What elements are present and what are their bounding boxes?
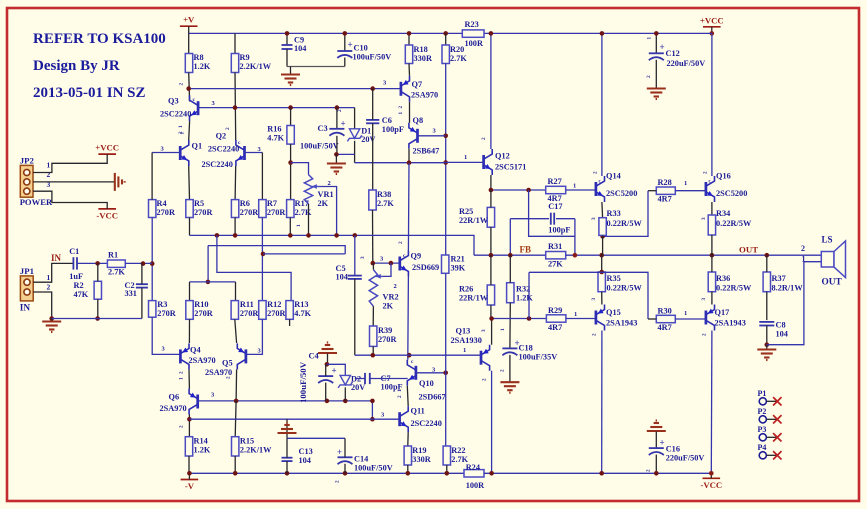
wire Q2 base bbox=[245, 152, 263, 154]
svg-text:OUT: OUT bbox=[822, 278, 843, 288]
svg-text:R6: R6 bbox=[240, 199, 250, 208]
capacitor C9 bbox=[282, 45, 293, 49]
resistor R17 bbox=[287, 200, 294, 218]
resistor R29 bbox=[546, 315, 566, 322]
wire R1 to input node bbox=[125, 262, 152, 264]
junction dot bbox=[407, 353, 412, 358]
connector JP2 bbox=[20, 165, 33, 197]
svg-text:2: 2 bbox=[337, 109, 343, 112]
capacitor C8 bbox=[759, 322, 774, 326]
wire R30 left lead bbox=[648, 318, 656, 320]
svg-text:270R: 270R bbox=[157, 309, 176, 318]
junction dot bbox=[95, 316, 100, 321]
svg-text:R21: R21 bbox=[451, 255, 465, 264]
svg-text:Q7: Q7 bbox=[412, 80, 423, 89]
svg-text:2SC2240: 2SC2240 bbox=[202, 160, 233, 169]
resistor R27 bbox=[546, 186, 566, 193]
junction dot bbox=[233, 105, 238, 110]
svg-text:1: 1 bbox=[398, 112, 404, 115]
wire -VCC rail right bbox=[484, 472, 711, 474]
wire Q2 emitter to R6 bbox=[234, 166, 237, 200]
capacitor C3 bbox=[329, 129, 344, 136]
wire C13/C14 top line bbox=[287, 437, 345, 439]
svg-text:3: 3 bbox=[701, 217, 707, 220]
svg-text:1: 1 bbox=[179, 377, 185, 380]
wire C2 bottom lead bbox=[141, 288, 143, 319]
wire R36 to Q17 emitter bbox=[711, 292, 713, 305]
svg-text:Q12: Q12 bbox=[495, 152, 510, 161]
wire C16 bottom lead bbox=[655, 455, 657, 474]
svg-text:22R/1W: 22R/1W bbox=[459, 294, 489, 303]
wire R28 left lead bbox=[648, 190, 656, 192]
wire D2 bottom lead bbox=[344, 387, 346, 401]
junction dot bbox=[443, 134, 448, 139]
svg-text:4.7K: 4.7K bbox=[294, 309, 311, 318]
svg-text:270R: 270R bbox=[378, 335, 397, 344]
resistor R9 bbox=[231, 54, 238, 73]
junction dot bbox=[389, 261, 394, 266]
wire C17 left lead bbox=[510, 218, 549, 220]
wire R2 top lead bbox=[97, 263, 99, 281]
resistor R37 bbox=[763, 272, 770, 292]
wire Q1 emitter to R5 bbox=[188, 166, 191, 200]
resistor R4 bbox=[149, 200, 156, 218]
junction dot bbox=[654, 31, 659, 36]
svg-text:Design By JR: Design By JR bbox=[33, 58, 120, 74]
svg-text:100uF/50V: 100uF/50V bbox=[353, 53, 392, 62]
junction dot bbox=[306, 233, 311, 238]
wire R16 to R17 bbox=[290, 144, 292, 200]
wire R35 to Q15 emitter bbox=[601, 292, 603, 305]
junction dot bbox=[489, 471, 494, 476]
svg-text:Q13: Q13 bbox=[456, 327, 471, 336]
svg-text:R16: R16 bbox=[267, 125, 281, 134]
svg-text:2: 2 bbox=[179, 425, 185, 428]
zener diode D2 bbox=[338, 375, 352, 388]
ground bbox=[500, 382, 519, 393]
wire C9 top lead bbox=[286, 33, 288, 45]
junction dot bbox=[141, 261, 146, 266]
wire R20 top lead bbox=[445, 33, 447, 45]
wire R11 top lead bbox=[235, 282, 237, 301]
svg-text:331: 331 bbox=[125, 289, 137, 298]
svg-text:C16: C16 bbox=[666, 445, 680, 454]
svg-text:Q2: Q2 bbox=[216, 132, 227, 141]
svg-text:C10: C10 bbox=[354, 44, 368, 53]
wire R3 to Q4 base bbox=[152, 317, 180, 354]
svg-text:JP2: JP2 bbox=[20, 156, 35, 166]
wire C12 top lead bbox=[655, 33, 657, 53]
svg-text:Q15: Q15 bbox=[606, 308, 621, 317]
wire Q3 base line bbox=[198, 107, 355, 109]
svg-text:R14: R14 bbox=[194, 437, 208, 446]
junction dot bbox=[489, 253, 494, 258]
wire C17 left to FB node bbox=[509, 219, 511, 256]
wire R5 bottom lead bbox=[189, 218, 191, 236]
svg-text:R1: R1 bbox=[108, 251, 118, 260]
resistor R3 bbox=[149, 301, 156, 318]
wire R7 to R12 column bbox=[261, 218, 263, 301]
wire JP2 pin2 to ground bbox=[33, 181, 114, 183]
resistor R11 bbox=[231, 301, 238, 320]
svg-text:100R: 100R bbox=[466, 481, 485, 490]
svg-text:3: 3 bbox=[701, 298, 707, 301]
svg-text:2.7K: 2.7K bbox=[295, 208, 312, 217]
resistor R33 bbox=[599, 218, 606, 236]
wire C6 top lead bbox=[372, 89, 374, 120]
svg-text:0.22R/5W: 0.22R/5W bbox=[716, 219, 752, 228]
resistor R36 bbox=[708, 272, 715, 292]
svg-text:R4: R4 bbox=[157, 199, 167, 208]
zener diode D1 bbox=[347, 129, 361, 142]
svg-text:270R: 270R bbox=[267, 309, 286, 318]
svg-text:R10: R10 bbox=[194, 300, 208, 309]
potentiometer VR2 bbox=[369, 270, 377, 307]
wire OUT to R35 bbox=[601, 255, 603, 272]
svg-text:-VCC: -VCC bbox=[96, 210, 118, 220]
svg-text:100uF/50V: 100uF/50V bbox=[300, 142, 339, 151]
svg-text:2: 2 bbox=[335, 480, 341, 483]
wire C17 right lead bbox=[556, 218, 575, 220]
wire -V rail left bbox=[189, 472, 464, 474]
wire C10 top lead bbox=[344, 33, 346, 51]
connector JP1 bbox=[20, 276, 33, 301]
svg-text:IN: IN bbox=[20, 304, 31, 314]
transistor Q12 bbox=[484, 149, 493, 175]
wire R15 top lead bbox=[234, 401, 237, 437]
resistor R16 bbox=[287, 126, 294, 145]
wire tail line to FB bbox=[190, 235, 475, 255]
wire C4 bottom lead bbox=[325, 383, 327, 401]
junction dot bbox=[527, 316, 532, 321]
svg-text:VR1: VR1 bbox=[318, 190, 334, 199]
svg-text:1: 1 bbox=[47, 273, 51, 282]
wire Q14 emitter to R33 bbox=[601, 202, 604, 218]
wire R32 to C18 bbox=[509, 303, 511, 349]
svg-text:2: 2 bbox=[47, 170, 51, 179]
svg-text:2: 2 bbox=[593, 171, 599, 174]
resistor R21 bbox=[442, 255, 449, 273]
svg-text:R22: R22 bbox=[451, 446, 465, 455]
capacitor C6 bbox=[366, 120, 379, 123]
svg-text:R11: R11 bbox=[240, 300, 254, 309]
junction dot bbox=[288, 160, 293, 165]
svg-text:R24: R24 bbox=[466, 463, 480, 472]
resistor R35 bbox=[598, 272, 605, 292]
junction dot bbox=[186, 86, 191, 91]
junction dot bbox=[233, 471, 238, 476]
ground bbox=[327, 164, 346, 175]
svg-text:2SC2240: 2SC2240 bbox=[208, 145, 239, 154]
wire +V rail right bbox=[484, 32, 712, 34]
svg-text:R25: R25 bbox=[459, 207, 473, 216]
resistor R8 bbox=[185, 54, 192, 73]
transistor Q13 bbox=[481, 345, 490, 371]
svg-text:2: 2 bbox=[482, 378, 488, 381]
svg-text:C17: C17 bbox=[548, 202, 562, 211]
resistor R13 bbox=[286, 301, 293, 320]
wire -V stem bbox=[188, 473, 190, 479]
junction dot bbox=[187, 471, 192, 476]
resistor R22 bbox=[443, 446, 450, 465]
svg-text:R15: R15 bbox=[240, 437, 254, 446]
svg-text:OUT: OUT bbox=[739, 244, 758, 254]
junction dot bbox=[710, 253, 715, 258]
svg-text:C1: C1 bbox=[69, 247, 79, 256]
svg-text:270R: 270R bbox=[240, 309, 259, 318]
wire JP1 pin2 to ground bbox=[33, 292, 52, 319]
speaker LS bbox=[821, 241, 845, 278]
wire D1 top lead bbox=[354, 108, 356, 129]
resistor R12 bbox=[259, 301, 266, 320]
svg-text:220uF/50V: 220uF/50V bbox=[666, 454, 705, 463]
wire Q12 base bbox=[446, 161, 484, 163]
wire Q6 collector to Q11 base line bbox=[189, 418, 399, 420]
wire VR1 bottom lead bbox=[308, 204, 310, 236]
svg-text:Q14: Q14 bbox=[606, 172, 621, 181]
svg-text:100pF: 100pF bbox=[382, 125, 404, 134]
svg-text:2: 2 bbox=[592, 333, 598, 336]
resistor R24 bbox=[464, 470, 484, 477]
wire Q7 collector to Q8 emitter bbox=[409, 102, 411, 123]
svg-text:100R: 100R bbox=[465, 39, 484, 48]
svg-text:C18: C18 bbox=[519, 344, 533, 353]
wire OUT to R37 bbox=[766, 255, 768, 272]
wire ground stem bbox=[335, 154, 337, 163]
wire C7 left lead bbox=[355, 378, 365, 380]
svg-text:R35: R35 bbox=[607, 274, 621, 283]
wire Q10 emitter to Q11 collector bbox=[406, 386, 409, 406]
svg-text:104: 104 bbox=[294, 44, 306, 53]
svg-text:270R: 270R bbox=[240, 208, 259, 217]
svg-text:2SD669: 2SD669 bbox=[412, 263, 439, 272]
junction dot bbox=[343, 31, 348, 36]
wire R2 bottom lead bbox=[97, 299, 99, 318]
junction dot bbox=[407, 31, 412, 36]
wire speaker return bbox=[767, 262, 822, 345]
junction dot bbox=[343, 399, 348, 404]
wire R8 top lead bbox=[188, 33, 190, 53]
junction dot bbox=[443, 31, 448, 36]
potentiometer VR1 bbox=[304, 175, 312, 204]
wire R4 to R3 column bbox=[151, 218, 153, 301]
junction dot bbox=[285, 471, 290, 476]
wire Q8 base bbox=[418, 135, 446, 137]
resistor R38 bbox=[369, 190, 376, 210]
wire R6 bottom lead bbox=[234, 218, 236, 236]
wire R19 bottom lead bbox=[407, 465, 409, 473]
wire R10 top lead bbox=[189, 282, 191, 301]
svg-text:2.2K/1W: 2.2K/1W bbox=[240, 62, 272, 71]
capacitor C2 bbox=[136, 284, 148, 287]
wire Q10 base bbox=[416, 372, 446, 374]
svg-text:+: + bbox=[348, 40, 353, 50]
transistor Q9 bbox=[400, 251, 409, 277]
svg-text:2K: 2K bbox=[383, 302, 394, 311]
svg-text:270R: 270R bbox=[194, 309, 213, 318]
wire input ground line bbox=[52, 318, 142, 320]
junction dot bbox=[765, 253, 770, 258]
wire C14 bottom lead bbox=[344, 464, 346, 474]
junction dot bbox=[489, 188, 494, 193]
wire D1 to C3 ground node bbox=[336, 153, 354, 155]
wire R28 to Q16 base bbox=[675, 190, 706, 192]
wire R26 top lead bbox=[490, 255, 492, 285]
resistor R19 bbox=[404, 446, 411, 465]
wire riser to driver bus bbox=[528, 272, 530, 318]
svg-text:3: 3 bbox=[481, 329, 487, 332]
resistor R34 bbox=[708, 215, 715, 235]
svg-text:R26: R26 bbox=[459, 285, 473, 294]
junction dot bbox=[407, 160, 412, 165]
wire +V stem bbox=[188, 26, 190, 33]
resistor R23 bbox=[462, 30, 484, 37]
wire Q4 collector to Q6 bbox=[188, 369, 190, 388]
junction dot bbox=[489, 31, 494, 36]
svg-text:1: 1 bbox=[464, 154, 467, 161]
svg-text:R28: R28 bbox=[658, 178, 672, 187]
svg-text:2: 2 bbox=[397, 395, 403, 398]
junction dot bbox=[343, 471, 348, 476]
wire VR2 node to Q9 base bbox=[373, 262, 400, 264]
svg-text:2: 2 bbox=[646, 75, 652, 78]
svg-text:2K: 2K bbox=[318, 199, 329, 208]
svg-text:Q1: Q1 bbox=[192, 142, 203, 151]
svg-text:C4: C4 bbox=[0, 0, 10, 2]
wire R16 to VR1 bbox=[291, 163, 309, 175]
wire JP1 pin1 to C1 bbox=[33, 263, 72, 282]
wire R29 to Q15 base bbox=[566, 318, 596, 320]
wire OUT line bbox=[566, 254, 822, 256]
junction dot bbox=[573, 253, 578, 258]
capacitor C12 bbox=[649, 53, 664, 60]
svg-text:47K: 47K bbox=[74, 290, 89, 299]
svg-text:FB: FB bbox=[520, 245, 532, 255]
wire C3 top lead bbox=[336, 108, 338, 129]
svg-text:+V: +V bbox=[183, 15, 195, 25]
wire Q6 collector to R14 bbox=[188, 414, 190, 436]
wire to mid ground bbox=[286, 419, 288, 438]
svg-text:R31: R31 bbox=[548, 242, 562, 251]
svg-text:R12: R12 bbox=[267, 300, 281, 309]
capacitor C16 bbox=[649, 448, 664, 455]
junction dot bbox=[233, 233, 238, 238]
wire C18 to ground bbox=[509, 355, 511, 382]
wire Q14 collector to rail bbox=[601, 33, 603, 176]
svg-text:104: 104 bbox=[776, 330, 788, 339]
resistor R18 bbox=[405, 45, 412, 64]
svg-text:8.2R/1W: 8.2R/1W bbox=[772, 284, 804, 293]
wire C5 top lead bbox=[354, 235, 356, 275]
svg-text:2: 2 bbox=[702, 333, 708, 336]
wire C17 right to R31 right bbox=[574, 219, 576, 256]
wire JP2 pin3 to -VCC bbox=[33, 191, 107, 209]
junction dot bbox=[445, 471, 450, 476]
wire C13 top lead bbox=[286, 438, 288, 457]
resistor R2 bbox=[94, 281, 101, 299]
power port -VCC bbox=[703, 477, 721, 479]
svg-text:2.7K: 2.7K bbox=[108, 268, 125, 277]
resistor R31 bbox=[546, 252, 566, 259]
svg-text:2SA1930: 2SA1930 bbox=[451, 336, 482, 345]
wire C9/C10 ground net bbox=[287, 66, 345, 68]
wire mirror line upper bbox=[208, 246, 345, 254]
wire -VCC stem bbox=[710, 473, 712, 478]
wire Q7 base line bbox=[189, 88, 401, 90]
svg-text:27K: 27K bbox=[548, 260, 563, 269]
wire R25 top lead bbox=[490, 190, 492, 207]
svg-text:+VCC: +VCC bbox=[700, 15, 724, 25]
svg-text:100uF/50V: 100uF/50V bbox=[298, 361, 308, 403]
wire C3 bottom lead bbox=[336, 136, 338, 155]
svg-text:P1: P1 bbox=[758, 389, 767, 398]
svg-text:2: 2 bbox=[47, 283, 51, 292]
capacitor C4 bbox=[318, 376, 333, 383]
svg-text:R2: R2 bbox=[74, 281, 84, 290]
svg-text:R7: R7 bbox=[267, 199, 277, 208]
transistor Q3 bbox=[190, 95, 199, 121]
svg-text:Q17: Q17 bbox=[715, 308, 730, 317]
svg-text:1: 1 bbox=[500, 328, 506, 331]
wire Q11 emitter to R19 bbox=[407, 432, 409, 446]
svg-text:C8: C8 bbox=[776, 321, 786, 330]
svg-text:2SA970: 2SA970 bbox=[189, 356, 216, 365]
svg-text:104: 104 bbox=[336, 273, 348, 282]
capacitor C14 bbox=[338, 457, 353, 464]
svg-text:270R: 270R bbox=[267, 208, 286, 217]
wire R27 to Q14 base bbox=[566, 189, 596, 191]
svg-text:R38: R38 bbox=[377, 190, 391, 199]
resistor R25 bbox=[487, 207, 494, 227]
junction dot bbox=[288, 233, 293, 238]
svg-text:1: 1 bbox=[573, 183, 576, 190]
ground bbox=[318, 343, 337, 354]
svg-text:+: + bbox=[341, 119, 346, 129]
svg-text:Q5: Q5 bbox=[222, 359, 233, 368]
wire Q3 emitter to Q1 collector bbox=[188, 121, 191, 140]
junction dot bbox=[599, 471, 604, 476]
wire Q8 collector lead bbox=[408, 149, 410, 163]
transistor Q8 bbox=[409, 123, 418, 149]
junction dot bbox=[371, 261, 376, 266]
capacitor C5 bbox=[348, 276, 362, 279]
svg-text:1: 1 bbox=[180, 132, 186, 135]
capacitor C18 bbox=[502, 348, 517, 355]
wire R9 top lead bbox=[234, 33, 236, 53]
svg-text:270R: 270R bbox=[194, 208, 213, 217]
svg-text:2SC2240: 2SC2240 bbox=[160, 110, 191, 119]
svg-text:3: 3 bbox=[360, 256, 366, 259]
svg-text:R23: R23 bbox=[465, 20, 479, 29]
capacitor C17 bbox=[551, 213, 554, 225]
wire R34 to OUT bbox=[711, 235, 713, 255]
svg-text:R33: R33 bbox=[607, 209, 621, 218]
svg-text:LS: LS bbox=[822, 235, 833, 245]
svg-text:+: + bbox=[660, 438, 665, 448]
wire C10 bottom lead bbox=[344, 58, 346, 67]
wire Q1 base bbox=[152, 152, 180, 154]
svg-text:2: 2 bbox=[179, 371, 185, 374]
svg-text:Q4: Q4 bbox=[190, 346, 201, 355]
junction dot bbox=[49, 316, 54, 321]
svg-text:Q16: Q16 bbox=[716, 172, 731, 181]
svg-text:+: + bbox=[332, 366, 337, 376]
junction dot bbox=[370, 399, 375, 404]
svg-text:+: + bbox=[660, 42, 665, 52]
wire R32 top lead bbox=[509, 255, 511, 283]
svg-text:2: 2 bbox=[398, 241, 404, 244]
wire C6 to R38 bbox=[372, 123, 374, 190]
